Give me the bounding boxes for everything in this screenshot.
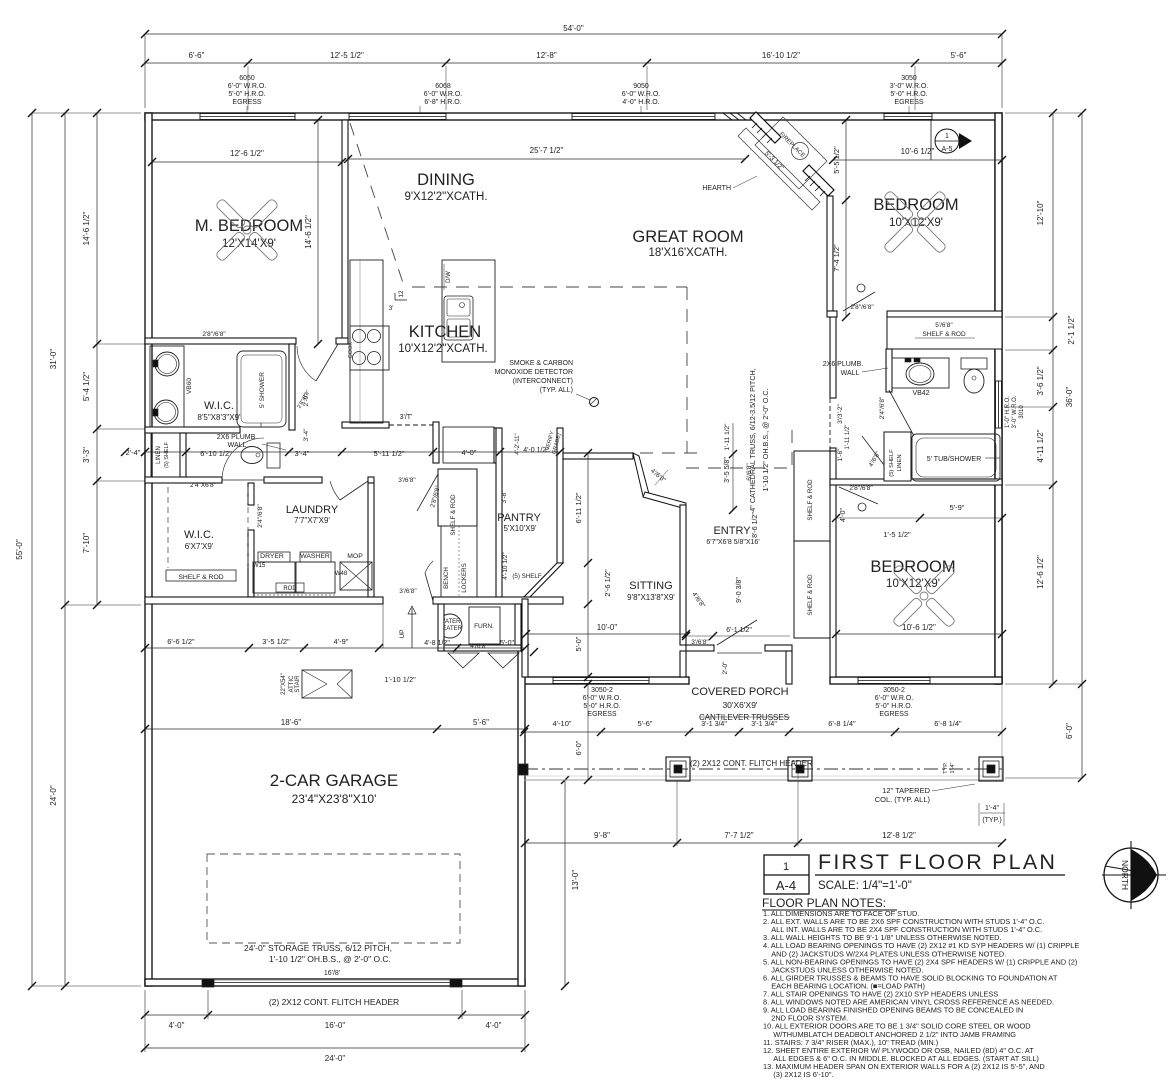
svg-text:COL. (TYP. ALL): COL. (TYP. ALL) — [875, 795, 931, 804]
svg-text:ROD: ROD — [283, 586, 297, 592]
dim 13'-0 right of garage — [564, 780, 566, 986]
svg-text:(2) 2X12 CONT. FLITCH HEADER: (2) 2X12 CONT. FLITCH HEADER — [690, 759, 813, 768]
window 9050 great room — [572, 114, 715, 120]
WIC2 dashes and shelf — [167, 487, 169, 568]
svg-text:1'-4": 1'-4" — [950, 762, 956, 773]
svg-text:A-5: A-5 — [942, 146, 953, 153]
svg-text:6068: 6068 — [435, 83, 451, 90]
porch slab edge — [524, 779, 1002, 781]
svg-text:(INTERCONNECT): (INTERCONNECT) — [513, 378, 573, 385]
porch dim chain — [524, 731, 1002, 733]
dim entry/sitting vertical x588 — [587, 453, 589, 677]
svg-text:6'-6 1/2": 6'-6 1/2" — [167, 637, 195, 646]
svg-text:COVERED PORCH: COVERED PORCH — [691, 686, 788, 698]
svg-text:NORTH: NORTH — [1120, 860, 1130, 890]
svg-text:SHELF & ROD: SHELF & ROD — [922, 331, 966, 338]
dim 25'-7 1/2 dining/great — [348, 158, 745, 160]
svg-text:10'-0": 10'-0" — [597, 623, 618, 632]
svg-text:3'-5 1/2": 3'-5 1/2" — [262, 637, 290, 646]
svg-text:3010: 3010 — [1019, 405, 1025, 419]
dim hall row y452: 6'-10 1/2 3'-4 5'-11 1/2 4'-0 4'-0 1/2 — [145, 451, 560, 453]
dim chain left: 14'-6 1/2 / 5'-4 1/2 / 3'-3 / 7'-10 — [96, 113, 98, 605]
flitch header dash-dot line — [524, 768, 1002, 770]
svg-text:16'-10 1/2": 16'-10 1/2" — [762, 51, 800, 60]
svg-text:5'X10'X9': 5'X10'X9' — [503, 524, 537, 533]
svg-text:8'-6 1/2": 8'-6 1/2" — [752, 512, 759, 538]
svg-text:6'-0" W.R.O.: 6'-0" W.R.O. — [583, 695, 621, 702]
svg-text:10'X12'X9': 10'X12'X9' — [886, 578, 940, 590]
svg-text:9'X12'2"XCATH.: 9'X12'2"XCATH. — [404, 191, 487, 203]
svg-text:LINEN: LINEN — [897, 454, 903, 471]
svg-text:12'-6 1/2": 12'-6 1/2" — [230, 149, 264, 158]
svg-text:5'-0" H.R.O.: 5'-0" H.R.O. — [875, 703, 912, 710]
dim 9'-8 7'-7 1/2 12'-8 1/2 bottom — [525, 842, 1002, 844]
svg-text:18'-6": 18'-6" — [281, 718, 302, 727]
garage bottom dims — [145, 1014, 525, 1016]
svg-text:WALL: WALL — [841, 370, 860, 377]
attic stair — [302, 670, 352, 698]
svg-text:5'-4 1/2": 5'-4 1/2" — [82, 372, 91, 401]
dim 12'-6 1/2 master bedroom — [152, 161, 342, 163]
svg-text:4'-0": 4'-0" — [169, 1021, 185, 1030]
wall: kitchen south — [342, 422, 389, 428]
svg-text:BENCH: BENCH — [443, 567, 450, 589]
load path square garage wall — [518, 764, 528, 775]
svg-text:6'-8" H.R.O.: 6'-8" H.R.O. — [424, 99, 461, 106]
svg-text:(TYP. ALL): (TYP. ALL) — [540, 387, 573, 394]
svg-text:6050: 6050 — [239, 75, 255, 82]
svg-text:3050-2: 3050-2 — [883, 687, 905, 694]
svg-text:WALL: WALL — [228, 442, 247, 449]
porch column 1 — [666, 757, 690, 781]
dim 18'-6 5'-6 garage — [145, 728, 525, 730]
svg-text:2'4"/6'8": 2'4"/6'8" — [257, 504, 264, 528]
master shower 5' — [237, 351, 286, 427]
svg-text:4'-11 1/2": 4'-11 1/2" — [1036, 429, 1045, 462]
porch column 3 — [979, 757, 1003, 781]
svg-text:12'-10": 12'-10" — [1036, 200, 1045, 225]
wall: top exterior — [145, 113, 1002, 120]
svg-text:1: 1 — [945, 133, 949, 140]
toilet master — [267, 443, 280, 468]
dim: 31'-0" / 24'-0" — [64, 113, 66, 986]
svg-text:KITCHEN: KITCHEN — [409, 323, 481, 341]
svg-text:4'/6'8": 4'/6'8" — [470, 643, 488, 650]
svg-text:10'X12'X9': 10'X12'X9' — [889, 217, 943, 229]
svg-text:2'-6 1/2": 2'-6 1/2" — [603, 569, 612, 597]
svg-text:W15: W15 — [253, 563, 266, 569]
svg-text:6'-0" W.R.O.: 6'-0" W.R.O. — [228, 83, 266, 90]
svg-text:6'-0": 6'-0" — [1065, 723, 1074, 739]
svg-text:EGRESS: EGRESS — [894, 99, 924, 106]
svg-text:7'7"X7'X9': 7'7"X7'X9' — [294, 516, 330, 525]
svg-text:5'-0" H.R.O.: 5'-0" H.R.O. — [583, 703, 620, 710]
svg-text:5'-6": 5'-6" — [638, 719, 653, 728]
window 3050-2 bedroom2 — [858, 678, 930, 684]
svg-text:6'/6'8": 6'/6'8" — [746, 463, 753, 481]
svg-text:4'-0" H.R.O.: 4'-0" H.R.O. — [622, 99, 659, 106]
svg-text:22"X54": 22"X54" — [281, 673, 287, 695]
wall: entry west — [680, 505, 686, 645]
svg-text:3'-6 1/2": 3'-6 1/2" — [1036, 366, 1045, 395]
svg-text:FIRST FLOOR PLAN: FIRST FLOOR PLAN — [818, 850, 1057, 874]
window 6068 dining — [349, 114, 446, 120]
svg-text:25'-7 1/2": 25'-7 1/2" — [530, 146, 564, 155]
front door 3'/6'8 — [717, 620, 757, 645]
svg-text:ENTRY: ENTRY — [713, 525, 751, 537]
dim 10'-6 1/2 bedroom1 — [833, 159, 1002, 161]
wall: sitting west — [522, 599, 528, 677]
svg-text:6'-8 1/4": 6'-8 1/4" — [934, 719, 962, 728]
svg-text:3'/6'8": 3'/6'8" — [399, 588, 417, 595]
svg-text:2-CAR GARAGE: 2-CAR GARAGE — [270, 771, 398, 790]
window 6050 master bedroom — [200, 114, 295, 120]
svg-text:9'-0 3/8": 9'-0 3/8" — [736, 577, 743, 603]
porch column 2 — [788, 757, 812, 781]
svg-text:9'8"X13'8"X9': 9'8"X13'8"X9' — [627, 593, 675, 602]
svg-text:BEDROOM: BEDROOM — [873, 196, 958, 214]
svg-text:36'-0": 36'-0" — [1065, 387, 1074, 408]
svg-text:7'-10": 7'-10" — [82, 533, 91, 554]
great room top wall hatch — [723, 113, 732, 120]
svg-text:5' TUB/SHOWER: 5' TUB/SHOWER — [927, 456, 982, 463]
wall: sitting north + angled entry opening — [563, 453, 633, 459]
bath2 vanity B42 — [892, 358, 949, 388]
linen master — [151, 433, 180, 477]
svg-text:5' SHOWER: 5' SHOWER — [259, 372, 266, 408]
wall: linen east — [180, 433, 186, 477]
svg-text:W.I.C.: W.I.C. — [204, 400, 234, 412]
wall: bedroom1 south — [827, 311, 837, 317]
svg-text:3050: 3050 — [901, 75, 917, 82]
svg-text:14'-6 1/2": 14'-6 1/2" — [82, 211, 91, 245]
svg-text:5'-11 1/2": 5'-11 1/2" — [373, 449, 404, 458]
master bath vanity VB60 — [150, 346, 184, 427]
svg-text:12'-8": 12'-8" — [536, 51, 557, 60]
dim chain right: 12'-10 / 2'-1 1/2 / 3'-6 1/2 / 4'-11 1/2 / 12'-6 1/2 — [1052, 113, 1054, 684]
svg-text:4'-8 1/2": 4'-8 1/2" — [424, 640, 450, 647]
svg-text:3'/3'-2": 3'/3'-2" — [837, 404, 844, 424]
svg-text:3'-1 3/4": 3'-1 3/4" — [751, 721, 777, 728]
svg-text:M. BEDROOM: M. BEDROOM — [195, 217, 303, 235]
dim: overall height 55'-0" — [31, 113, 33, 986]
wall: mud hall south / garage north — [145, 597, 383, 604]
laundry appliances — [253, 562, 295, 593]
svg-text:SITTING: SITTING — [629, 580, 672, 592]
kitchen west counter and range — [350, 260, 383, 423]
great room ceiling dashes — [412, 286, 687, 288]
dim chain: top row 6'-6 / 12'-5 1/2 / 12'-8 / 16'-10 1/2 / 5'-6 — [145, 62, 1002, 64]
wall: laundry east — [368, 483, 374, 597]
svg-text:W48: W48 — [335, 571, 348, 577]
svg-text:MOP: MOP — [347, 553, 363, 560]
svg-text:4'-0": 4'-0" — [840, 508, 847, 522]
svg-text:(5) SHELF: (5) SHELF — [164, 441, 170, 468]
svg-text:1'-10 1/2" OH.B.S., @ 2'-0" O.: 1'-10 1/2" OH.B.S., @ 2'-0" O.C. — [269, 954, 391, 964]
svg-text:54'-0": 54'-0" — [563, 24, 584, 33]
wall: bath mid vertical — [289, 344, 295, 430]
svg-text:COOK: COOK — [348, 342, 354, 359]
svg-text:DINING: DINING — [417, 171, 475, 189]
svg-text:1'-0" H.R.O.: 1'-0" H.R.O. — [1005, 396, 1011, 428]
svg-text:(5) SHELF: (5) SHELF — [889, 449, 895, 477]
wall: entry side returns — [680, 651, 686, 677]
svg-text:1'-10 1/2": 1'-10 1/2" — [384, 675, 416, 684]
garage interior dim row — [145, 647, 525, 649]
kitchen dashed cathedral diagonal — [350, 123, 403, 283]
svg-text:SHELF & ROD: SHELF & ROD — [807, 574, 814, 616]
garage storage truss dashed area — [207, 854, 460, 943]
svg-text:3'-4": 3'-4" — [303, 428, 310, 442]
svg-text:W.I.C.: W.I.C. — [184, 529, 214, 541]
svg-text:FURN.: FURN. — [474, 623, 494, 630]
svg-text:(2) 2X12 CONT. FLITCH HEADER: (2) 2X12 CONT. FLITCH HEADER — [269, 997, 399, 1007]
wall: WIC2 east — [248, 483, 254, 505]
svg-text:HEARTH: HEARTH — [702, 185, 731, 192]
window 3050-2 sitting — [553, 678, 649, 684]
svg-text:1'-11 1/2": 1'-11 1/2" — [724, 423, 731, 451]
north arrow compass — [1104, 848, 1158, 902]
garage door opening — [208, 982, 462, 984]
svg-text:3'-3": 3'-3" — [82, 447, 91, 463]
furnace — [469, 607, 500, 644]
dim extension lines top — [247, 66, 249, 110]
svg-text:BEDROOM: BEDROOM — [870, 558, 955, 576]
window 3010 right bath — [996, 381, 1002, 428]
svg-text:6'-10 1/2": 6'-10 1/2" — [200, 449, 232, 458]
svg-text:UP: UP — [399, 629, 406, 638]
svg-text:1'-11 1/2": 1'-11 1/2" — [845, 425, 851, 450]
svg-text:5'-5 1/2": 5'-5 1/2" — [832, 146, 841, 174]
dims bedroom1 hall 5'-5 1/2 7'-4 1/2 — [845, 120, 847, 317]
svg-text:LOCKERS: LOCKERS — [461, 563, 468, 593]
svg-text:SCALE: 1/4"=1'-0": SCALE: 1/4"=1'-0" — [818, 880, 912, 892]
svg-text:6'-0" W.R.O.: 6'-0" W.R.O. — [622, 91, 660, 98]
svg-text:PANTRY: PANTRY — [497, 512, 541, 524]
svg-text:3'-0" W.R.O.: 3'-0" W.R.O. — [1012, 395, 1018, 428]
closet shelf&rod hall — [438, 469, 477, 526]
svg-text:EGRESS: EGRESS — [232, 99, 262, 106]
svg-text:3050-2: 3050-2 — [591, 687, 613, 694]
svg-text:3': 3' — [389, 305, 394, 312]
svg-text:2'-0": 2'-0" — [722, 661, 729, 675]
dim right outer: 36'-0" and 6'-0" — [1081, 113, 1083, 778]
title block box — [764, 855, 809, 894]
svg-text:4'-9": 4'-9" — [334, 637, 349, 646]
svg-text:DRYER: DRYER — [260, 553, 284, 560]
bath2 toilet — [961, 358, 987, 369]
load path squares at garage door — [202, 979, 214, 987]
svg-text:D/W: D/W — [446, 271, 452, 283]
svg-text:55'-0": 55'-0" — [15, 539, 24, 560]
svg-text:3'-8": 3'-8" — [501, 490, 508, 504]
svg-text:3'/6'8": 3'/6'8" — [398, 477, 416, 484]
svg-text:3'/T': 3'/T' — [400, 414, 413, 421]
svg-text:10'X12'2"XCATH.: 10'X12'2"XCATH. — [398, 343, 487, 355]
svg-text:3'-1 3/4": 3'-1 3/4" — [701, 721, 727, 728]
svg-text:5'-6": 5'-6" — [951, 51, 967, 60]
furnace closet walls — [438, 604, 444, 651]
svg-text:(5) SHELF: (5) SHELF — [512, 573, 541, 580]
svg-text:12" TAPERED: 12" TAPERED — [882, 786, 930, 795]
svg-text:6'-1 1/2": 6'-1 1/2" — [726, 627, 752, 634]
svg-text:16'/8': 16'/8' — [324, 970, 340, 977]
svg-text:2'4"X6'8": 2'4"X6'8" — [190, 482, 217, 489]
svg-text:18'X16'XCATH.: 18'X16'XCATH. — [649, 247, 728, 259]
svg-text:6'-0" W.R.O.: 6'-0" W.R.O. — [424, 91, 462, 98]
svg-text:3'-5 5/8": 3'-5 5/8" — [724, 457, 731, 483]
svg-text:LINEN: LINEN — [156, 446, 162, 464]
fan master bedroom — [248, 231, 279, 262]
wall: great room east / bedroom1 west — [827, 196, 833, 311]
svg-text:EGRESS: EGRESS — [587, 711, 617, 718]
svg-text:2X6 PLUMB.: 2X6 PLUMB. — [217, 434, 258, 441]
svg-text:STAIR: STAIR — [295, 675, 301, 693]
svg-text:(3) 2X12 IS 6'-10".: (3) 2X12 IS 6'-10". — [763, 1070, 834, 1079]
svg-text:9'-8": 9'-8" — [594, 831, 610, 840]
svg-text:5'-0" H.R.O.: 5'-0" H.R.O. — [228, 91, 265, 98]
wall: entry closets A/B — [794, 451, 830, 541]
svg-text:(TYP.): (TYP.) — [982, 817, 1001, 824]
svg-text:6'7"X6'8 5/8"X16': 6'7"X6'8 5/8"X16' — [706, 539, 759, 546]
svg-text:30'X6'X9': 30'X6'X9' — [722, 700, 757, 710]
closet bedroom1 shelf&rod — [887, 317, 1002, 349]
svg-text:LAUNDRY: LAUNDRY — [286, 504, 339, 516]
svg-text:6'-6": 6'-6" — [189, 51, 205, 60]
svg-text:2X6 PLUMB.: 2X6 PLUMB. — [823, 361, 864, 368]
svg-text:12'-5 1/2": 12'-5 1/2" — [330, 51, 364, 60]
svg-text:23'4"X23'8"X10': 23'4"X23'8"X10' — [292, 792, 377, 806]
window 3050 bedroom 1 — [884, 114, 932, 120]
svg-text:SMOKE & CARBON: SMOKE & CARBON — [509, 360, 573, 367]
svg-text:SHELF & ROD: SHELF & ROD — [450, 494, 457, 536]
wall: bedroom2 west — [830, 451, 836, 677]
linen bath2 — [884, 432, 911, 481]
wall: right exterior — [995, 120, 1002, 684]
svg-text:16'-0": 16'-0" — [325, 1021, 346, 1030]
svg-text:12'-8 1/2": 12'-8 1/2" — [882, 831, 916, 840]
svg-text:VB60: VB60 — [186, 378, 193, 394]
svg-text:FLOOR PLAN NOTES:: FLOOR PLAN NOTES: — [762, 896, 886, 910]
wall: garage right — [518, 604, 525, 986]
bath2 tub 5' tub/shower — [912, 434, 1000, 481]
svg-text:2'4"/6'8": 2'4"/6'8" — [879, 397, 886, 419]
wall: left exterior — [145, 113, 152, 986]
svg-text:4'-2'-11": 4'-2'-11" — [515, 433, 521, 454]
svg-text:12'-6 1/2": 12'-6 1/2" — [1036, 555, 1045, 589]
stair up arrow — [411, 608, 413, 648]
svg-text:8'5"X8'3"X9': 8'5"X8'3"X9' — [197, 413, 241, 422]
wall: bedroom2 bottom — [830, 677, 1002, 684]
svg-text:1: 1 — [783, 861, 789, 873]
svg-text:24'-0": 24'-0" — [325, 1054, 346, 1063]
svg-text:10'-6 1/2": 10'-6 1/2" — [901, 147, 935, 156]
svg-text:5'-6": 5'-6" — [473, 718, 489, 727]
svg-text:5'-0" H.R.O.: 5'-0" H.R.O. — [890, 91, 927, 98]
svg-text:2'8"/6'8": 2'8"/6'8" — [849, 485, 873, 492]
dim: overall width 54'-0" — [145, 33, 1002, 35]
svg-text:6'-11 1/2": 6'-11 1/2" — [574, 492, 583, 523]
hall niche 4'-0 — [433, 422, 439, 463]
section marker 1/A-5 — [930, 120, 932, 160]
svg-text:4'-10 1/2": 4'-10 1/2" — [502, 552, 509, 580]
svg-text:1'-6": 1'-6" — [837, 448, 844, 462]
svg-text:2'8"/6'8": 2'8"/6'8" — [850, 304, 874, 311]
svg-text:6'-0" W.R.O.: 6'-0" W.R.O. — [875, 695, 913, 702]
svg-text:VB42: VB42 — [912, 390, 929, 397]
svg-text:24'-0" STORAGE TRUSS, 6/12 PIT: 24'-0" STORAGE TRUSS, 6/12 PITCH, — [244, 943, 392, 953]
svg-text:1'-4": 1'-4" — [985, 805, 999, 812]
wall: pantry east + diagonal — [557, 428, 563, 563]
svg-text:2'8"/6'8": 2'8"/6'8" — [202, 331, 226, 338]
svg-text:5'-0": 5'-0" — [500, 640, 514, 647]
svg-text:GREAT ROOM: GREAT ROOM — [632, 228, 743, 246]
porch 6'-0 dim — [587, 684, 589, 780]
svg-text:4'-0": 4'-0" — [486, 1021, 502, 1030]
svg-text:10'-6 1/2": 10'-6 1/2" — [902, 623, 936, 632]
svg-text:TYP.: TYP. — [943, 762, 949, 774]
svg-text:3'/6'8": 3'/6'8" — [691, 639, 709, 646]
svg-text:12: 12 — [398, 290, 405, 298]
svg-text:6'-0": 6'-0" — [574, 740, 583, 755]
svg-text:7'-4 1/2": 7'-4 1/2" — [832, 244, 841, 272]
svg-text:4" CATHEDRAL TRUSS, 6/12-3.5/1: 4" CATHEDRAL TRUSS, 6/12-3.5/12 PITCH, — [748, 368, 757, 511]
svg-text:7'-7 1/2": 7'-7 1/2" — [724, 831, 753, 840]
wall: WIC2 north — [145, 477, 222, 483]
svg-text:SHELF & ROD: SHELF & ROD — [807, 479, 814, 521]
svg-text:6'X7'X9': 6'X7'X9' — [185, 542, 214, 551]
fan bedroom 1 — [916, 223, 947, 254]
wall: master bedroom east — [342, 120, 348, 344]
svg-text:31'-0": 31'-0" — [49, 349, 58, 370]
wall: vanity south / toilet north — [145, 427, 240, 433]
svg-text:EGRESS: EGRESS — [879, 711, 909, 718]
svg-text:9050: 9050 — [633, 83, 649, 90]
bath2 walls — [886, 349, 892, 392]
bench lockers — [441, 526, 477, 597]
svg-text:4'-0": 4'-0" — [462, 448, 477, 457]
wall: entry front with door — [686, 645, 714, 651]
wall: master bedroom south — [145, 338, 296, 344]
fan bedroom 2 — [925, 597, 956, 628]
svg-text:2'-1 1/2": 2'-1 1/2" — [1067, 315, 1076, 344]
svg-text:14'-6 1/2": 14'-6 1/2" — [304, 215, 313, 249]
svg-text:4'-10": 4'-10" — [552, 719, 571, 728]
dim 10'-0 sitting — [526, 633, 686, 635]
svg-text:1'-10 1/2" OH.B.S., @ 2'-0" O.: 1'-10 1/2" OH.B.S., @ 2'-0" O.C. — [761, 388, 770, 491]
svg-text:WASHER: WASHER — [300, 553, 330, 560]
svg-text:MONOXIDE DETECTOR: MONOXIDE DETECTOR — [495, 369, 573, 376]
svg-text:SHELF & ROD: SHELF & ROD — [178, 574, 223, 581]
svg-text:1'-5 1/2": 1'-5 1/2" — [883, 530, 911, 539]
wall: sitting bottom — [522, 677, 689, 684]
svg-text:5'-0": 5'-0" — [574, 636, 583, 651]
svg-text:3'-0" W.R.O.: 3'-0" W.R.O. — [890, 83, 928, 90]
svg-text:A-4: A-4 — [776, 878, 796, 893]
svg-text:24'-0": 24'-0" — [49, 785, 58, 806]
water heater — [438, 614, 462, 638]
svg-text:6'-8 1/4": 6'-8 1/4" — [828, 719, 856, 728]
fireplace — [750, 112, 781, 143]
svg-text:13'-0": 13'-0" — [571, 870, 580, 891]
furnace closet doors — [448, 653, 479, 668]
wall: pantry west — [496, 428, 502, 597]
svg-text:5'-9": 5'-9" — [950, 503, 965, 512]
dim 14'-6 1/2 interior — [317, 120, 319, 344]
svg-text:5'/6'8": 5'/6'8" — [935, 322, 953, 329]
kitchen island sink DW — [442, 260, 495, 362]
wall: garage bottom — [145, 979, 525, 986]
